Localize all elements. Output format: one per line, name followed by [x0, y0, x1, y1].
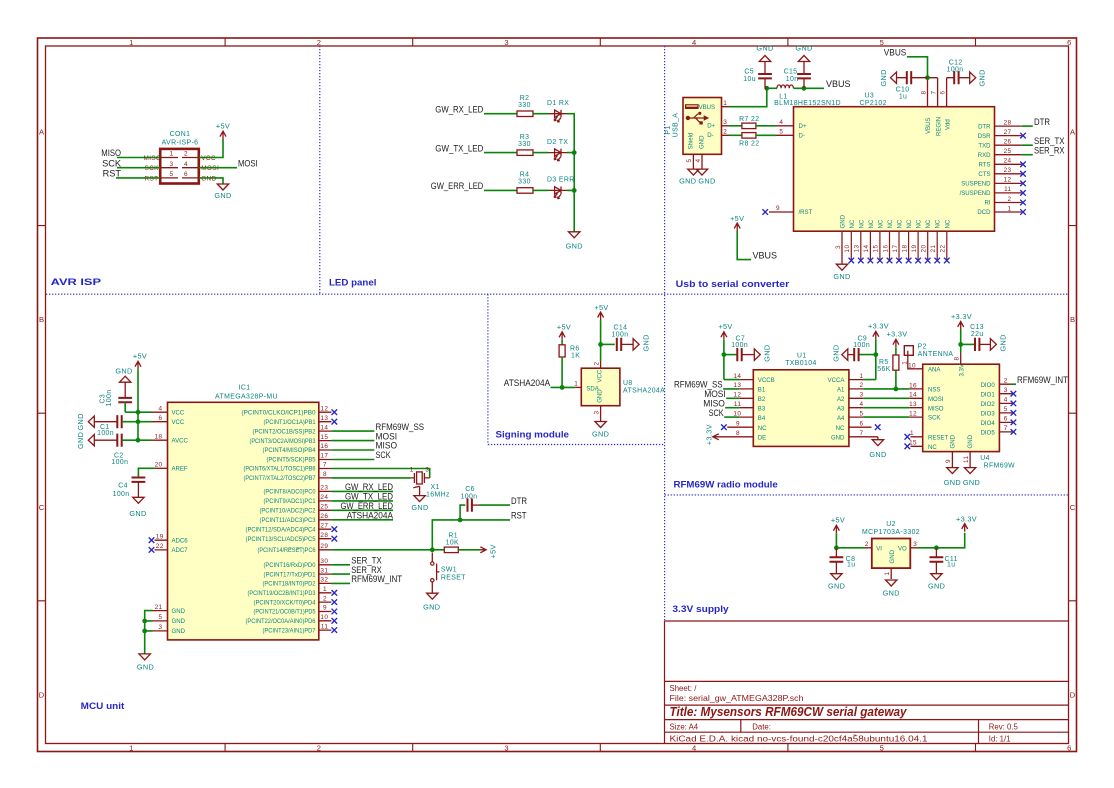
junction RST C6 [458, 518, 463, 523]
capacitor C6 [468, 499, 472, 512]
svg-text:19: 19 [156, 533, 164, 540]
svg-text:GND: GND [968, 434, 974, 448]
svg-text:AVCC: AVCC [172, 438, 189, 444]
connector CON1 AVR-ISP-6 [160, 131, 199, 184]
wire A3 to MISO [863, 407, 909, 409]
svg-text:1u: 1u [947, 562, 955, 569]
svg-text:VBUS: VBUS [926, 118, 932, 134]
capacitor C7 [724, 354, 737, 356]
crystal X1 16MHz [411, 472, 430, 496]
svg-text:16MHz: 16MHz [426, 492, 450, 499]
svg-text:GND: GND [700, 135, 706, 149]
svg-text:7: 7 [323, 462, 327, 469]
svg-text:9: 9 [945, 459, 952, 463]
wire GND bus MCU [145, 611, 153, 654]
no-connect /RST [762, 209, 768, 215]
svg-text:ADC7: ADC7 [172, 548, 189, 554]
svg-text:25: 25 [320, 504, 328, 511]
svg-text:+5V: +5V [557, 323, 571, 332]
U4 right pin stubs [999, 384, 1013, 432]
svg-text:100n: 100n [947, 67, 964, 74]
svg-text:NC: NC [907, 219, 913, 228]
svg-text:GND: GND [566, 242, 583, 251]
capacitor C15 [797, 74, 811, 78]
diode D2 TX [549, 149, 568, 161]
wire junction to C14 [601, 343, 615, 345]
svg-text:100n: 100n [113, 491, 130, 498]
svg-text:12: 12 [1004, 177, 1012, 184]
svg-text:4: 4 [692, 38, 696, 47]
svg-text:1K: 1K [571, 353, 580, 360]
svg-text:Id: 1/1: Id: 1/1 [989, 735, 1011, 744]
svg-text:27: 27 [1004, 129, 1012, 136]
svg-text:14: 14 [909, 392, 917, 399]
svg-text:/SUSPEND: /SUSPEND [960, 191, 992, 197]
svg-text:C10: C10 [896, 86, 910, 93]
svg-text:A4: A4 [837, 416, 845, 422]
resistor R8 [729, 134, 742, 136]
svg-text:2: 2 [317, 38, 321, 47]
svg-text:MCU unit: MCU unit [81, 700, 125, 711]
resistor R4 [517, 188, 533, 194]
svg-text:B1: B1 [758, 388, 766, 394]
svg-text:VBUS: VBUS [884, 48, 907, 58]
svg-text:5: 5 [686, 159, 693, 163]
svg-text:3: 3 [504, 38, 508, 47]
wire RST label [460, 519, 510, 521]
wire R8 to U3 [756, 134, 776, 136]
P2 pin1 wire to ANA [908, 351, 916, 369]
svg-text:4: 4 [159, 405, 163, 412]
svg-text:C: C [39, 503, 45, 512]
svg-text:GND: GND [828, 582, 845, 591]
svg-text:GND: GND [172, 609, 186, 615]
wire R3 to D2 [533, 152, 549, 154]
wire junction to C13 [961, 343, 975, 345]
junction D2 [572, 150, 577, 155]
svg-text:GND: GND [832, 345, 841, 362]
svg-text:D-: D- [799, 134, 805, 140]
svg-text:(PCINT10/ADC2)PC2: (PCINT10/ADC2)PC2 [260, 509, 317, 515]
ground C13 sideways right [990, 339, 996, 350]
svg-text:DTR: DTR [511, 496, 527, 506]
svg-text:7: 7 [931, 91, 938, 95]
svg-text:DIO2: DIO2 [981, 402, 996, 408]
svg-text:2: 2 [1008, 196, 1012, 203]
resistor R1 [432, 549, 444, 551]
wire PB7 XTAL2 [331, 477, 410, 479]
svg-text:Sheet: /: Sheet: / [670, 684, 698, 693]
svg-text:26: 26 [320, 513, 328, 520]
svg-text:GND: GND [756, 44, 773, 53]
U1 left pin names [758, 378, 775, 441]
svg-text:GND: GND [999, 334, 1008, 351]
U8 SDA pin stub [575, 386, 581, 388]
svg-text:SCK: SCK [102, 158, 122, 168]
U2 pin stubs [865, 548, 917, 579]
svg-text:13: 13 [854, 245, 861, 253]
junction VBUS C5 [764, 86, 769, 91]
svg-text:9: 9 [736, 420, 740, 427]
svg-text:VCC: VCC [172, 410, 185, 416]
svg-text:20: 20 [155, 462, 163, 469]
junction VCC2 [136, 419, 141, 424]
svg-text:AVR ISP: AVR ISP [51, 276, 101, 287]
wire C6 left [460, 505, 465, 520]
wire MISO U1 [725, 407, 739, 409]
ground C11 [931, 574, 942, 580]
U3 bottom NC pin numbers [844, 245, 947, 253]
svg-text:12: 12 [320, 405, 328, 412]
svg-text:DIO5: DIO5 [981, 431, 996, 437]
wire PB4 MISO [331, 449, 374, 451]
svg-text:100n: 100n [612, 331, 629, 338]
wire SER_TX [1022, 144, 1033, 146]
svg-text:SER_RX: SER_RX [1034, 145, 1065, 155]
svg-text:SCK: SCK [145, 165, 160, 172]
svg-text:GND: GND [76, 432, 85, 449]
P1 usb plug bar icon [685, 104, 699, 109]
section titles [51, 276, 790, 711]
svg-text:12: 12 [909, 411, 917, 418]
ground U8 [595, 422, 606, 428]
U3 bottom GND pin 3 [841, 231, 843, 264]
junction VCC1 [136, 410, 141, 415]
wire DTR out [1022, 125, 1033, 127]
U4 bottom GND pin stubs [952, 452, 970, 468]
capacitor C10 [907, 71, 911, 84]
wire MOSI out [199, 167, 237, 169]
svg-text:File: serial_gw_ATMEGA328P.sch: File: serial_gw_ATMEGA328P.sch [670, 694, 804, 703]
U3 right pin stubs [995, 126, 1022, 212]
svg-text:ANA: ANA [928, 368, 941, 374]
svg-text:15: 15 [320, 434, 328, 441]
svg-text:17: 17 [892, 245, 899, 253]
svg-text:10: 10 [844, 245, 851, 253]
P1 pin stubs [693, 107, 729, 169]
wire PC0 GW_RX_LED [331, 490, 393, 492]
svg-text:R4: R4 [520, 172, 530, 179]
wire R1 to +5V arrow [458, 549, 479, 551]
svg-text:MOSI: MOSI [201, 165, 219, 172]
svg-text:7: 7 [1004, 425, 1008, 432]
svg-text:5: 5 [779, 128, 783, 135]
svg-text:NC: NC [869, 219, 875, 228]
svg-text:GND: GND [214, 191, 231, 200]
U3 bottom NC pin stubs [851, 231, 947, 260]
svg-text:C: C [1070, 503, 1076, 512]
svg-text:(PCINT5/SCK)PB5: (PCINT5/SCK)PB5 [267, 458, 317, 464]
svg-text:NC: NC [836, 426, 845, 432]
junction GND pin3 [142, 629, 147, 634]
svg-text:23: 23 [1004, 167, 1012, 174]
svg-text:MISO: MISO [144, 155, 162, 162]
svg-text:Signing module: Signing module [496, 429, 570, 440]
capacitor C4 [132, 478, 146, 482]
svg-text:B: B [1070, 315, 1075, 324]
wire +3.3V to R5 [895, 347, 897, 355]
svg-text:GND: GND [951, 434, 957, 448]
resistor R2 [517, 111, 533, 117]
svg-text:24: 24 [320, 494, 328, 501]
svg-text:(PCINT16/RxD)PD0: (PCINT16/RxD)PD0 [264, 563, 317, 569]
svg-text:2: 2 [865, 541, 869, 548]
svg-text:GND: GND [963, 478, 980, 487]
svg-text:1: 1 [129, 38, 133, 47]
CON1 pin names [144, 155, 220, 182]
svg-text:15: 15 [873, 245, 880, 253]
svg-text:R2: R2 [520, 95, 530, 102]
connector P2 ANTENNA [904, 346, 913, 356]
svg-text:5: 5 [880, 38, 884, 47]
svg-text:6: 6 [1067, 38, 1071, 47]
svg-text:11: 11 [1004, 186, 1011, 193]
junction GND pin5 [142, 619, 147, 624]
svg-text:16: 16 [320, 443, 328, 450]
svg-text:CTS: CTS [978, 172, 990, 178]
svg-text:NC: NC [850, 219, 856, 228]
svg-text:NC: NC [926, 219, 932, 228]
svg-text:20: 20 [921, 245, 928, 253]
capacitor C1 [88, 416, 94, 427]
svg-text:3: 3 [170, 161, 174, 168]
svg-text:GND: GND [172, 629, 186, 635]
ground C10 sideways left [891, 72, 897, 83]
svg-text:6: 6 [184, 171, 188, 178]
svg-text:VI: VI [876, 546, 882, 552]
no-connect DSR [1020, 133, 1026, 139]
svg-text:MCP1703A-3302: MCP1703A-3302 [862, 529, 920, 536]
svg-text:+5V: +5V [216, 122, 230, 131]
U3 /RST pin stub [769, 211, 794, 213]
svg-text:D: D [39, 691, 45, 700]
svg-text:RFM69W_SS: RFM69W_SS [376, 422, 425, 432]
svg-text:Size: A4: Size: A4 [670, 723, 699, 732]
IC1 left pin names [172, 410, 189, 635]
svg-text:330: 330 [518, 102, 531, 109]
U3 top pin 7 REGIN [928, 78, 938, 107]
svg-text:(PCINT20/XCK/T0)PD4: (PCINT20/XCK/T0)PD4 [254, 600, 317, 606]
svg-text:18: 18 [155, 433, 163, 440]
svg-text:Usb to serial converter: Usb to serial converter [676, 278, 790, 289]
wire +5V rail down [138, 369, 152, 440]
svg-text:C14: C14 [614, 324, 628, 331]
svg-text:B: B [39, 315, 44, 324]
svg-text:3: 3 [504, 744, 508, 753]
wire MISO [117, 157, 160, 159]
junction C7 [722, 352, 727, 357]
junction C9 [873, 352, 878, 357]
svg-text:(PCINT21/OC0B/T1)PD5: (PCINT21/OC0B/T1)PD5 [254, 610, 317, 616]
svg-text:U2: U2 [886, 521, 896, 528]
svg-text:GND: GND [172, 619, 186, 625]
section divider dashed lines [46, 46, 1069, 621]
svg-text:NC: NC [936, 219, 942, 228]
wire PB2 RFM69W_SS [331, 430, 374, 432]
wire R6 to SDA [561, 357, 563, 387]
svg-text:21: 21 [155, 604, 163, 611]
svg-text:14: 14 [733, 373, 741, 380]
svg-text:A1: A1 [837, 388, 845, 394]
svg-text:GND: GND [978, 69, 987, 86]
IC1 right pin numbers [320, 405, 328, 630]
svg-text:RXD: RXD [978, 153, 991, 159]
svg-text:+3.3V: +3.3V [886, 330, 907, 339]
junction pin8 [925, 75, 930, 80]
svg-text:GND: GND [423, 603, 440, 612]
U1 right pin stubs [849, 380, 878, 440]
U8 GND pin stub [600, 406, 602, 422]
svg-text:8: 8 [954, 357, 961, 361]
wire SCK [117, 167, 160, 169]
svg-text:R3: R3 [520, 134, 530, 141]
junction VCC C14 [598, 342, 603, 347]
svg-text:+5V: +5V [489, 544, 498, 558]
U1 right pin names [828, 378, 846, 441]
svg-text:100n: 100n [106, 390, 113, 407]
wire PC1 GW_TX_LED [331, 500, 393, 502]
svg-text:NC: NC [758, 426, 767, 432]
svg-text:CP2102: CP2102 [860, 100, 887, 107]
ground C3 inverted [120, 376, 131, 382]
wire R4 to D3 [533, 189, 549, 191]
svg-text:GW_RX_LED: GW_RX_LED [345, 482, 393, 492]
wire SCK U1 [724, 416, 739, 418]
svg-text:15: 15 [909, 440, 917, 447]
power +5V CON1 [220, 131, 226, 139]
junction D3 [572, 188, 577, 193]
capacitor C2 [88, 435, 94, 446]
svg-text:D-: D- [707, 133, 713, 139]
wire gnd bus down [567, 190, 574, 231]
resistor R5 [893, 355, 899, 370]
svg-text:GND: GND [869, 450, 886, 459]
no-connect DIO1-DIO5 [1011, 391, 1017, 397]
no-connect SUSPEND [1020, 181, 1026, 187]
svg-text:VCCB: VCCB [758, 378, 775, 384]
svg-text:GND: GND [129, 509, 146, 518]
ground C9 sideways left [842, 349, 848, 360]
svg-text:MOSI: MOSI [928, 397, 944, 403]
no-connect U4 NC [905, 444, 911, 450]
svg-text:GND: GND [679, 177, 696, 186]
svg-text:3: 3 [723, 119, 727, 126]
wire ATSHA204A label to SDA [551, 386, 576, 388]
svg-text:16: 16 [882, 245, 889, 253]
svg-text:14: 14 [863, 245, 870, 253]
svg-text:2: 2 [860, 382, 864, 389]
svg-text:P1: P1 [665, 125, 672, 134]
svg-text:+5V: +5V [133, 352, 147, 361]
U3 right pin numbers [1004, 119, 1012, 212]
svg-text:GW_TX_LED: GW_TX_LED [435, 143, 483, 153]
svg-text:GND: GND [201, 175, 216, 182]
wire PB6 XTAL1 [331, 469, 429, 478]
svg-text:LED panel: LED panel [329, 277, 376, 288]
capacitor C3 [124, 382, 126, 398]
svg-text:3: 3 [835, 245, 842, 249]
svg-text:56K: 56K [877, 366, 890, 373]
ground P1 shield [688, 169, 699, 175]
IC1 right pin names [242, 410, 317, 634]
svg-text:(PCINT18/INT0)PD2: (PCINT18/INT0)PD2 [263, 582, 317, 588]
svg-text:C5: C5 [744, 69, 754, 76]
junction C15 [802, 86, 807, 91]
svg-text:MOSI: MOSI [238, 158, 258, 168]
svg-text:AREF: AREF [172, 467, 188, 473]
svg-text:100n: 100n [111, 459, 128, 466]
wire +5V to VI [836, 533, 865, 548]
svg-text:D+: D+ [707, 124, 715, 130]
ground U1 pin7 [872, 440, 883, 446]
svg-text:10K: 10K [446, 539, 459, 546]
svg-text:C4: C4 [118, 483, 128, 490]
wire +3.3V U4 [960, 330, 962, 353]
svg-text:100n: 100n [97, 430, 114, 437]
svg-text:1: 1 [910, 430, 914, 437]
capacitor C11 [935, 548, 937, 558]
svg-text:1: 1 [170, 151, 174, 158]
wire AREF to C4 [155, 467, 168, 469]
svg-text:TXD: TXD [978, 143, 991, 149]
svg-text:VBUS: VBUS [699, 105, 715, 111]
ground X1 [414, 496, 425, 502]
diode D3 ERR [549, 187, 568, 199]
svg-text:RFM69W_INT: RFM69W_INT [351, 574, 402, 584]
svg-text:VBUS: VBUS [826, 79, 851, 89]
svg-text:AVR-ISP-6: AVR-ISP-6 [162, 140, 199, 147]
svg-text:(PCINT11/ADC3)PC3: (PCINT11/ADC3)PC3 [260, 518, 317, 524]
svg-text:6: 6 [860, 420, 864, 427]
svg-text:+5V: +5V [594, 303, 608, 312]
svg-text:ADC6: ADC6 [172, 538, 189, 544]
no-connect PB0 PB1 [332, 409, 338, 415]
svg-text:13: 13 [320, 415, 328, 422]
svg-text:23: 23 [320, 485, 328, 492]
svg-text:21: 21 [930, 245, 937, 253]
svg-text:5: 5 [880, 744, 884, 753]
svg-text:24: 24 [1004, 158, 1012, 165]
svg-text:1u: 1u [847, 562, 855, 569]
svg-text:Rev: 0.5: Rev: 0.5 [989, 723, 1019, 732]
svg-text:7: 7 [860, 430, 864, 437]
svg-text:/RST: /RST [799, 210, 813, 216]
capacitor C13 [975, 338, 979, 351]
svg-text:GND: GND [76, 413, 85, 430]
diode D1 RX [549, 110, 568, 122]
svg-text:3.3V: 3.3V [960, 364, 966, 376]
svg-text:2: 2 [723, 129, 727, 136]
svg-text:(PCINT0/CLKO/ICP1)PB0: (PCINT0/CLKO/ICP1)PB0 [242, 410, 317, 416]
svg-text:4: 4 [692, 744, 696, 753]
frame column numbers top [129, 38, 1071, 47]
svg-text:C13: C13 [970, 324, 984, 331]
no-connect RI [1020, 200, 1026, 206]
svg-text:6: 6 [1067, 744, 1071, 753]
svg-text:2: 2 [1004, 377, 1008, 384]
no-connect U1 pin6 [875, 424, 881, 430]
wire GW_RX_LED row [484, 113, 517, 115]
svg-text:DIO3: DIO3 [981, 412, 996, 418]
connector P1 USB_A [665, 98, 722, 155]
svg-text:VCC: VCC [201, 155, 216, 162]
svg-text:+3.3V: +3.3V [951, 312, 972, 321]
svg-text:3: 3 [913, 541, 917, 548]
svg-text:ATSHA204A: ATSHA204A [504, 378, 551, 388]
resistor R6 [559, 345, 565, 357]
svg-text:10n: 10n [786, 76, 799, 83]
ground C5 inverted [759, 56, 770, 62]
